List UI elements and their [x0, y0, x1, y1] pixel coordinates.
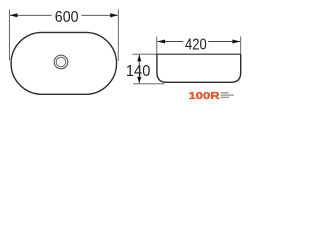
side-view top edge [157, 53, 241, 55]
arrowhead 420 left [157, 39, 165, 43]
logo tagline line 2 (ГИПЕРМАРКЕТ) [221, 94, 234, 95]
extension line top (140) [133, 53, 158, 55]
arrowhead 140 bottom [137, 77, 141, 84]
svg-text:140: 140 [126, 63, 151, 80]
arrowhead 600 right [110, 13, 118, 17]
dimension line 420 right segment [208, 41, 240, 43]
extension line right (420) [240, 37, 242, 55]
extension line right (600) [117, 10, 119, 62]
extension line left (420) [156, 37, 158, 55]
svg-text:100R: 100R [189, 90, 221, 102]
dimension line 600 left segment [10, 14, 52, 16]
basin top-view oval outline (stadium) [11, 32, 117, 94]
dimension line 140 [138, 55, 140, 83]
logo tagline line 1 (ОНЛАЙН) [221, 92, 229, 93]
extension line bottom (140) [133, 83, 165, 85]
extension line left (600) [8, 10, 10, 61]
logo tagline line 3 (ТЕХНИКИ) [221, 97, 230, 98]
drain outer circle [54, 55, 68, 69]
arrowhead 140 top [137, 55, 141, 62]
svg-text:420: 420 [185, 36, 207, 53]
dimension line 420 left segment [157, 41, 183, 43]
arrowhead 600 left [10, 13, 18, 17]
arrowhead 420 right [232, 39, 240, 43]
dimension line 600 right segment [81, 14, 117, 16]
drain inner circle [56, 57, 66, 67]
basin side-view profile [157, 54, 241, 82]
svg-text:600: 600 [55, 9, 79, 26]
